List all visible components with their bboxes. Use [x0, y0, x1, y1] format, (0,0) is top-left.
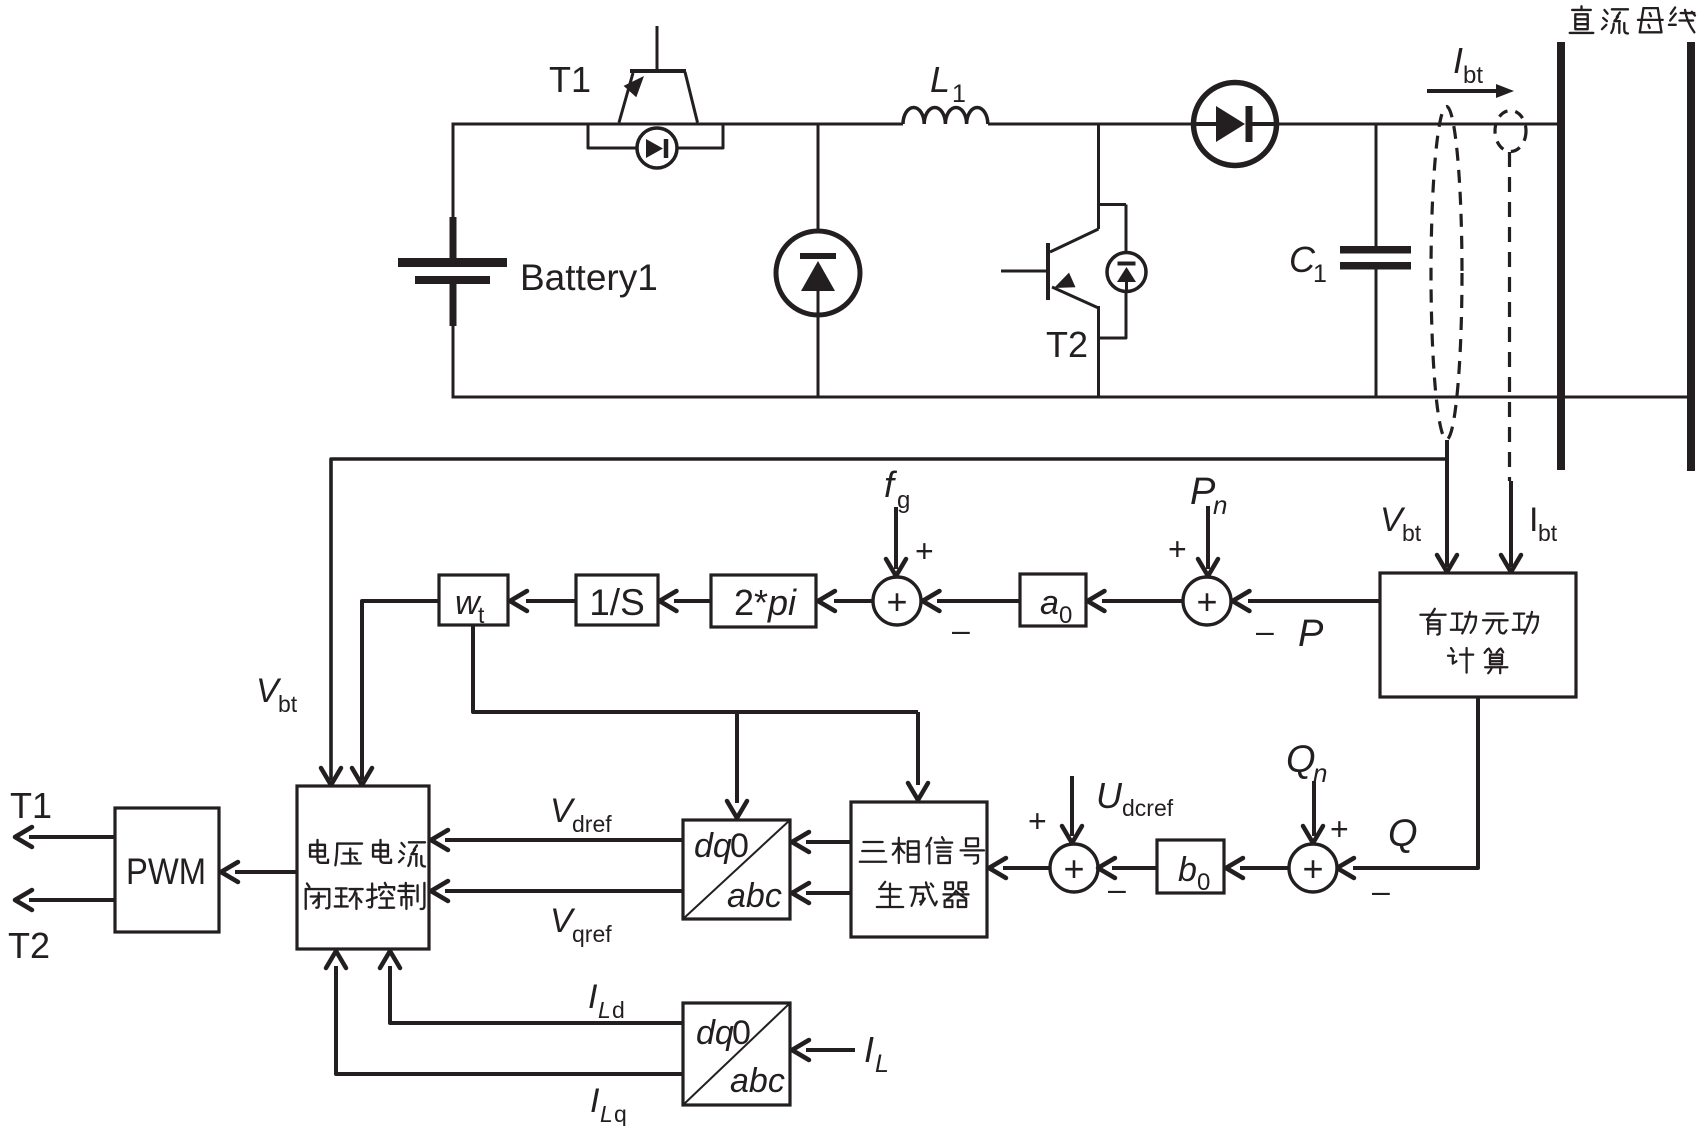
svg-text:–: –: [952, 612, 970, 648]
svg-text:I: I: [590, 1082, 600, 1120]
svg-text:P: P: [1298, 613, 1324, 655]
node IL input: [792, 1029, 889, 1078]
current arrow Ibt (top): [1427, 40, 1514, 98]
svg-text:+: +: [915, 533, 934, 569]
svg-text:1: 1: [952, 80, 966, 108]
node fg input: [884, 464, 934, 576]
block PWM: [115, 808, 219, 932]
svg-text:a: a: [1040, 584, 1059, 622]
wire wt output down to dq0 and three-phase generator: [473, 625, 928, 818]
diode D3 (output diode): [1194, 83, 1277, 166]
svg-text:L: L: [598, 997, 611, 1023]
block U3: dq0/abc transform (reference voltages): [683, 820, 790, 919]
wire ILq to control: [326, 951, 683, 1127]
wire PWM output T1: [10, 785, 115, 847]
svg-text:0: 0: [732, 1014, 751, 1052]
diode D2 (clamp diode, middle branch): [776, 231, 860, 399]
svg-text:0: 0: [1059, 602, 1072, 629]
summing junction S2: [1183, 577, 1231, 625]
svg-text:+: +: [1302, 848, 1323, 889]
svg-text:T2: T2: [1046, 324, 1088, 365]
wire Vqref from dq0 to control: [431, 881, 683, 947]
dashed measurement lead Ibt: [1508, 152, 1511, 481]
svg-text:dcref: dcref: [1122, 795, 1174, 821]
block U1: active/reactive power calculation 有功无功计算: [1380, 573, 1576, 697]
svg-text:+: +: [1330, 811, 1349, 847]
svg-text:q: q: [614, 1101, 627, 1126]
diode D1 (antiparallel with T1): [588, 124, 723, 168]
inductor L1: [903, 59, 988, 124]
wire Q output down and to sum S4: [1337, 697, 1478, 909]
wire Vbt feedback (long horizontal): [256, 459, 1447, 785]
battery Battery1: [398, 124, 658, 399]
wire gain a0 to sum S1: [923, 591, 1021, 648]
summing junction S1: [873, 577, 921, 625]
svg-text:L: L: [930, 59, 950, 100]
svg-text:L: L: [600, 1101, 613, 1126]
svg-text:dq: dq: [694, 827, 732, 865]
block U4: three-phase signal generator 三相信号生成器: [851, 802, 987, 937]
block wt: [439, 575, 508, 628]
wire node B (junction top rail to T2): [1097, 124, 1100, 206]
svg-text:L: L: [875, 1050, 889, 1078]
svg-text:+: +: [1168, 531, 1187, 567]
svg-text:+: +: [1028, 803, 1047, 839]
transistor T2: [1001, 204, 1126, 399]
summing junction S4: [1289, 844, 1337, 892]
svg-text:+: +: [1063, 848, 1084, 889]
svg-text:qref: qref: [572, 921, 612, 947]
svg-text:dref: dref: [572, 811, 612, 837]
svg-text:n: n: [1213, 490, 1227, 520]
wire sum S3 to three-phase generator: [989, 858, 1050, 878]
transistor T1: [549, 26, 698, 123]
gain b0: [1157, 840, 1224, 896]
svg-text:C: C: [1289, 239, 1316, 280]
wire gain b0 to sum S3: [1098, 858, 1157, 878]
node Udcref input: [1028, 775, 1174, 907]
svg-text:U: U: [1096, 775, 1123, 816]
voltage measurement loop (dashed ellipse): [1431, 107, 1462, 440]
wire top rail: [452, 123, 1562, 126]
svg-text:Q: Q: [1388, 813, 1418, 855]
svg-text:PWM: PWM: [126, 851, 206, 892]
diode (antiparallel with T2): [1099, 205, 1146, 339]
gain a0: [1020, 574, 1086, 629]
wire 1/S to wt: [510, 591, 576, 611]
svg-text:T1: T1: [549, 59, 591, 100]
svg-text:n: n: [1313, 758, 1327, 788]
svg-text:Battery1: Battery1: [520, 257, 658, 298]
node Qn input: [1286, 739, 1349, 847]
svg-text:Q: Q: [1286, 739, 1316, 781]
block U2: voltage-current closed-loop control 电压电流闭环控制: [297, 786, 429, 949]
svg-text:b: b: [1178, 851, 1197, 889]
current measurement loop (small dashed circle): [1495, 111, 1526, 152]
svg-text:I: I: [588, 978, 598, 1016]
wires three-phase generator to dq0: [792, 832, 851, 903]
node Pn input: [1168, 471, 1227, 576]
wire Ibt sense lead down to power-calc block: [1501, 481, 1558, 572]
svg-text:0: 0: [730, 827, 749, 865]
svg-text:abc: abc: [730, 1062, 785, 1100]
wire PWM output T2: [8, 890, 115, 966]
svg-text:I: I: [1453, 40, 1463, 81]
svg-text:dq: dq: [696, 1014, 734, 1052]
wire sum S4 to gain b0: [1226, 858, 1289, 878]
wire Vdref from dq0 to control: [431, 792, 683, 850]
wire ILd to control: [380, 951, 683, 1023]
svg-text:2*: 2*: [734, 582, 768, 623]
wire control to PWM: [221, 862, 297, 882]
wire node A (junction top rail to clamp diode): [817, 124, 820, 257]
svg-text:+: +: [1196, 581, 1217, 622]
block 2*pi: [711, 575, 816, 627]
block 1/S integrator: [576, 575, 658, 625]
capacitor C1: [1289, 124, 1411, 399]
wire sum S2 to gain a0: [1088, 591, 1184, 611]
svg-text:1: 1: [1313, 260, 1327, 288]
wire sum S1 to block 2*pi: [818, 591, 873, 611]
svg-text:T1: T1: [10, 785, 52, 826]
DC bus bars 直流母线: [1557, 6, 1695, 471]
block U5: dq0/abc transform (load currents): [683, 1003, 790, 1105]
svg-text:1/S: 1/S: [589, 582, 645, 623]
wire 2*pi to integrator 1/S: [660, 591, 712, 611]
svg-text:bt: bt: [1463, 62, 1483, 89]
svg-text:bt: bt: [1538, 520, 1558, 546]
svg-text:I: I: [864, 1029, 874, 1070]
wire Vbt sense lead down to power-calc block: [1380, 440, 1457, 572]
svg-text:d: d: [612, 997, 625, 1023]
svg-text:abc: abc: [727, 877, 782, 915]
svg-text:bt: bt: [1402, 520, 1422, 546]
svg-text:T2: T2: [8, 925, 50, 966]
svg-text:–: –: [1256, 613, 1274, 649]
svg-text:bt: bt: [278, 691, 298, 717]
wire wt output to control block (left path): [352, 601, 439, 785]
wire bottom rail: [452, 396, 1692, 399]
svg-text:–: –: [1372, 873, 1390, 909]
wire P output to sum S2: [1233, 591, 1381, 655]
summing junction S3: [1050, 844, 1098, 892]
svg-text:+: +: [886, 581, 907, 622]
svg-text:g: g: [897, 487, 910, 514]
svg-text:pi: pi: [767, 582, 797, 623]
svg-text:0: 0: [1197, 869, 1210, 896]
svg-text:t: t: [478, 602, 485, 628]
